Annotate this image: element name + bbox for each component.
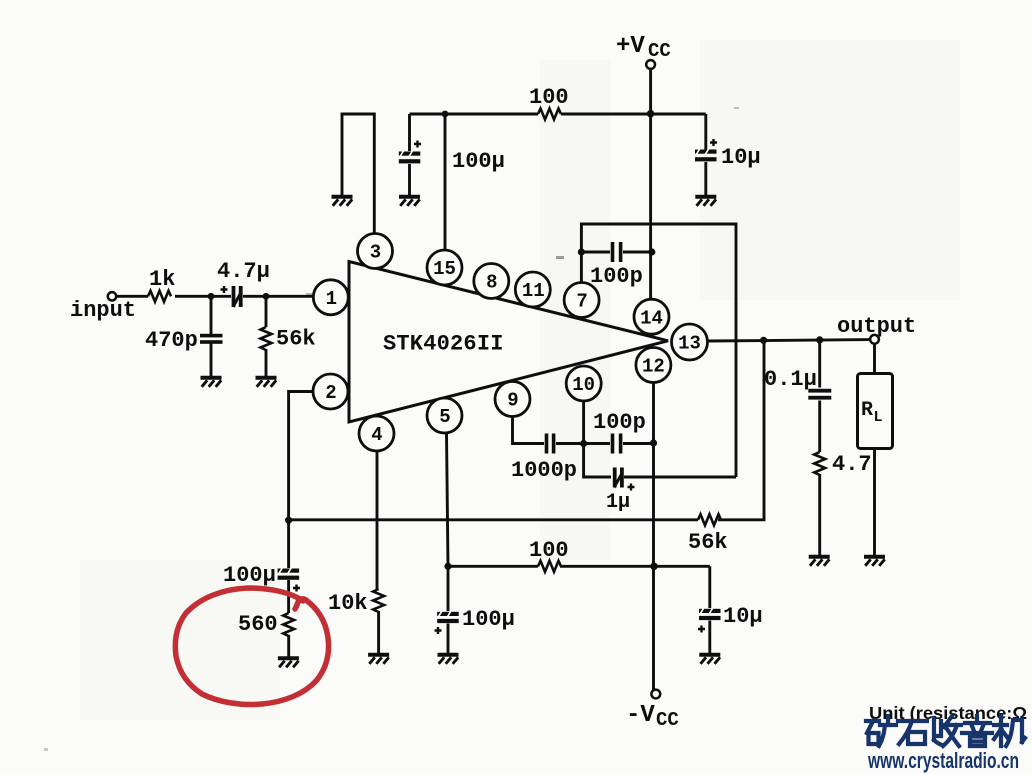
svg-text:1μ: 1μ <box>606 491 630 514</box>
svg-text:+V: +V <box>616 33 645 60</box>
svg-text:14: 14 <box>640 307 663 329</box>
svg-text:www.crystalradio.cn: www.crystalradio.cn <box>867 748 1019 773</box>
svg-text:10: 10 <box>572 374 595 396</box>
svg-text:0.1μ: 0.1μ <box>764 367 817 392</box>
svg-text:1000p: 1000p <box>511 458 577 483</box>
svg-text:470p: 470p <box>145 328 198 353</box>
svg-text:560: 560 <box>238 612 278 637</box>
svg-text:L: L <box>874 409 883 426</box>
svg-text:100μ: 100μ <box>223 563 276 588</box>
svg-text:8: 8 <box>486 272 497 294</box>
svg-text:1k: 1k <box>149 267 175 292</box>
svg-text:output: output <box>837 314 916 339</box>
svg-text:100: 100 <box>529 538 569 563</box>
svg-text:100p: 100p <box>590 264 643 289</box>
svg-text:STK4026II: STK4026II <box>383 332 504 357</box>
svg-text:100p: 100p <box>593 410 646 435</box>
svg-text:12: 12 <box>642 356 665 378</box>
svg-text:100μ: 100μ <box>462 607 515 632</box>
svg-text:100μ: 100μ <box>452 149 505 174</box>
svg-text:3: 3 <box>370 242 381 264</box>
svg-text:9: 9 <box>507 390 518 412</box>
svg-text:CC: CC <box>648 40 671 62</box>
svg-text:10μ: 10μ <box>723 604 763 629</box>
svg-text:100: 100 <box>529 85 569 110</box>
svg-text:-V: -V <box>626 702 655 729</box>
svg-text:10μ: 10μ <box>721 145 761 170</box>
svg-text:10k: 10k <box>328 591 368 616</box>
svg-text:56k: 56k <box>688 530 728 555</box>
svg-text:4.7: 4.7 <box>832 452 872 477</box>
svg-text:CC: CC <box>656 709 679 731</box>
svg-text:7: 7 <box>576 291 587 313</box>
svg-text:13: 13 <box>678 333 701 355</box>
svg-text:1: 1 <box>326 288 337 310</box>
svg-text:56k: 56k <box>276 327 316 352</box>
svg-text:5: 5 <box>439 406 450 428</box>
svg-text:input: input <box>70 298 136 323</box>
svg-text:15: 15 <box>433 258 456 280</box>
svg-text:11: 11 <box>522 280 545 302</box>
svg-text:4.7μ: 4.7μ <box>217 259 270 284</box>
svg-text:4: 4 <box>371 424 382 446</box>
svg-text:R: R <box>861 399 873 422</box>
svg-text:2: 2 <box>325 382 336 404</box>
